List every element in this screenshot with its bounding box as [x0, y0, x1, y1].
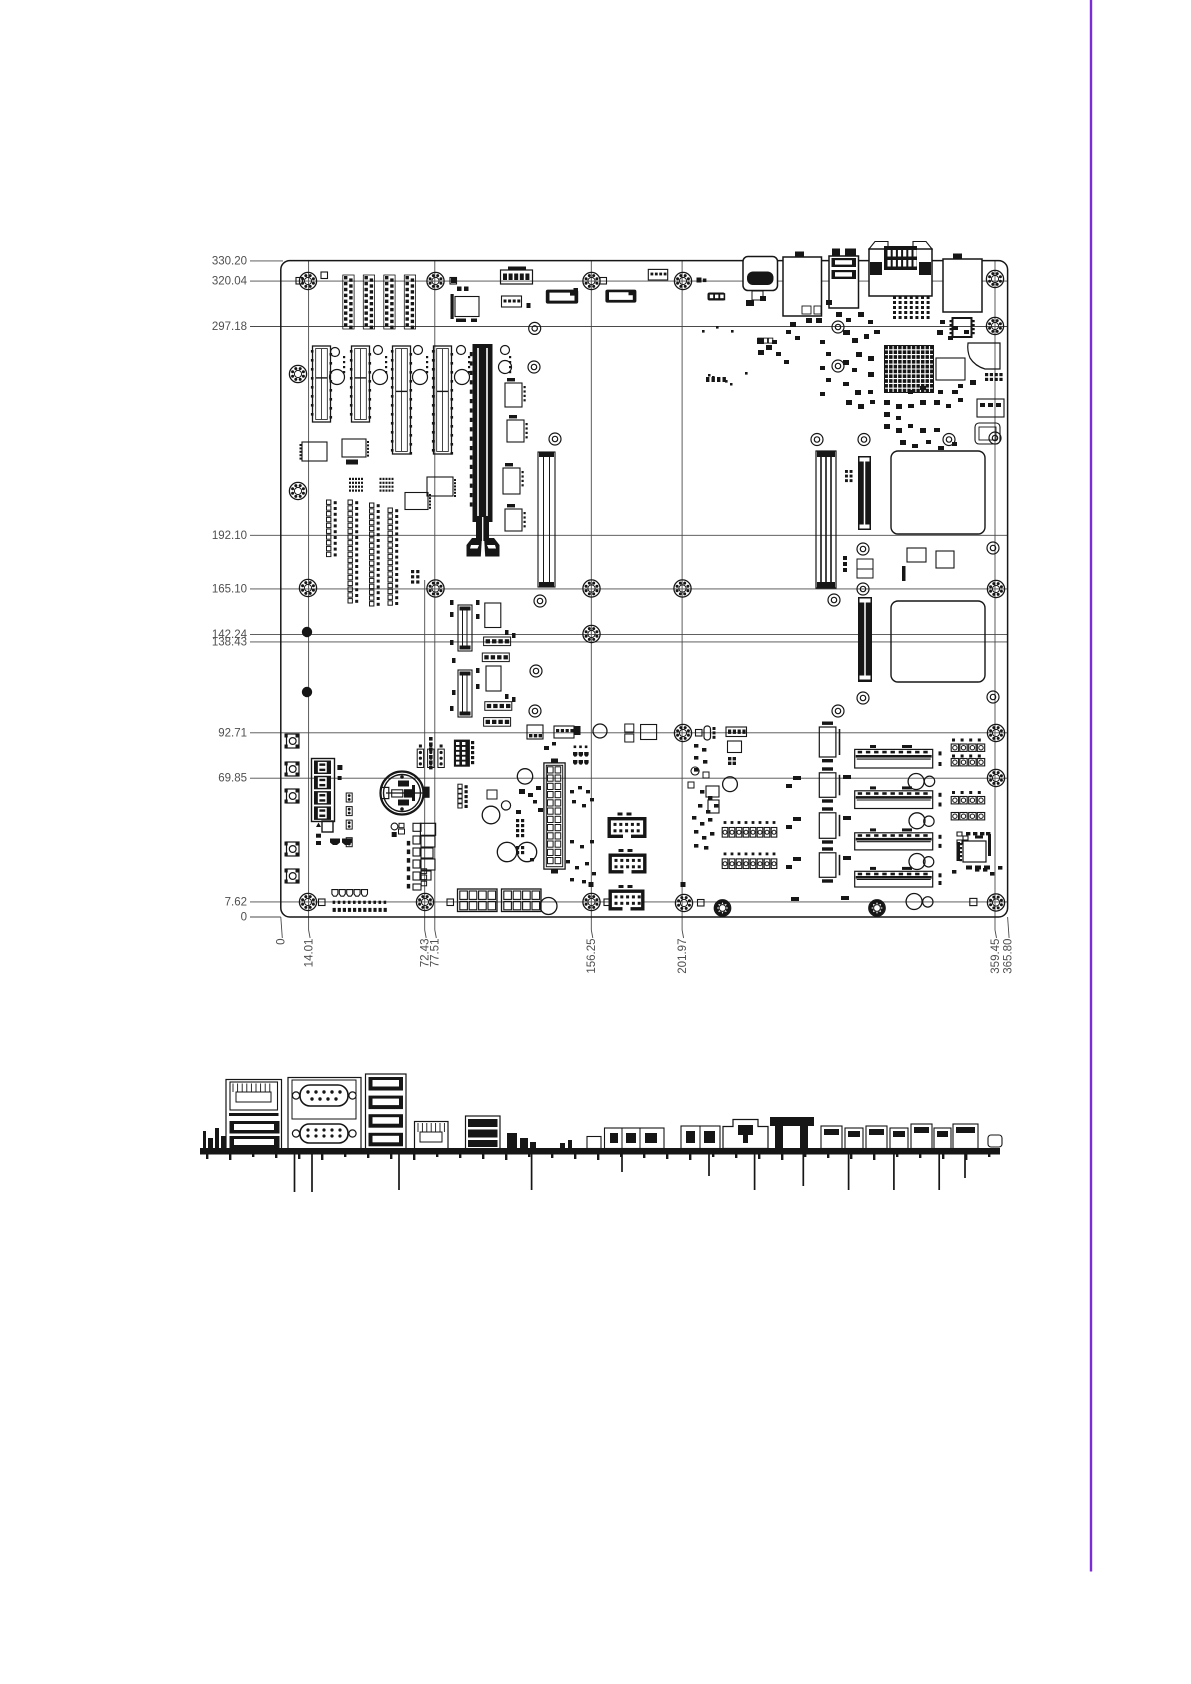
pin header (6-pin): [411, 570, 414, 573]
plated through-hole: [943, 434, 955, 446]
M.2 connector M2_2: [458, 670, 472, 717]
CPU power capacitor: [540, 898, 557, 915]
dimension line 297.18 mm (horizontal): [250, 326, 1008, 328]
svg-text:138.43: 138.43: [212, 636, 247, 648]
7-segment display DS1: [312, 759, 335, 822]
side: quad USB stack: [366, 1074, 407, 1150]
plated through-hole: [529, 322, 541, 334]
silkscreen label: [468, 356, 470, 358]
dimension line 165.10 mm (horizontal): [250, 588, 1008, 590]
pad pair near hole: [697, 278, 702, 283]
dimension line 201.97 mm (vertical): [681, 261, 683, 930]
electrolytic capacitor: [482, 806, 500, 824]
bar below keep-out: [902, 566, 906, 581]
plated through-hole: [987, 542, 999, 554]
capacitor pair B: [909, 813, 925, 829]
pin header CN1 (dual-row vertical): [344, 276, 347, 279]
plated through-hole: [989, 432, 1001, 444]
COM header: [502, 296, 522, 307]
plated through-hole: [832, 321, 844, 333]
mounting hole: [299, 579, 316, 596]
vertical edge connector slot: [538, 452, 555, 587]
IC U15: [907, 548, 926, 562]
plated through-hole: [529, 705, 541, 717]
SATA connector SATA1: [546, 290, 578, 304]
svg-text:156.25: 156.25: [586, 938, 598, 973]
LAN connector box 2: [943, 259, 982, 312]
jumper block column A: [327, 500, 331, 504]
bar right of QFP: [988, 834, 991, 850]
plated through-hole: [528, 361, 540, 373]
output choke module: [819, 853, 836, 878]
3-pin jumper: [428, 749, 434, 767]
tact switch: [287, 789, 300, 803]
dimension line 92.71 mm (horizontal): [250, 732, 1008, 734]
inductor pads: [487, 790, 497, 799]
magnetics cluster: [349, 478, 351, 480]
box header CN: [609, 890, 645, 911]
3-pin jumper: [417, 749, 423, 767]
DC-DC converter IC: [505, 509, 522, 531]
ATX12V 2x4 connector: [458, 889, 498, 912]
ATX12V 2x4 connector: [502, 889, 542, 912]
svg-text:297.18: 297.18: [212, 321, 247, 333]
VGA D-SUB connector: [869, 249, 932, 296]
power header: [648, 269, 667, 280]
tooling hole: [374, 346, 383, 355]
FPC connector: [485, 702, 512, 711]
plated through-hole: [832, 705, 844, 717]
side: dark strip: [770, 1117, 814, 1126]
jumper J4: [708, 293, 726, 301]
power connector slot (horizontal): [855, 749, 933, 768]
svg-text:201.97: 201.97: [677, 939, 689, 974]
output choke module: [819, 813, 836, 839]
SMD block: [728, 757, 731, 760]
chipset heatsink U1: [884, 345, 934, 393]
MOSFET squares: [421, 869, 426, 874]
svg-text:92.71: 92.71: [218, 727, 247, 739]
SMD pair: [337, 765, 342, 770]
jumper CMOS2: [429, 755, 433, 759]
IC U10: [302, 442, 327, 461]
mounting hole (dark): [714, 900, 730, 916]
capacitor: [451, 277, 456, 283]
PCB board outline: [281, 261, 1008, 917]
module keep-out zone 1: [891, 451, 985, 534]
FPC connector: [484, 637, 511, 646]
2-pin jumper: [346, 838, 352, 847]
DC-DC converter IC: [505, 383, 522, 407]
fiducial pad: [450, 278, 457, 285]
USB header row: [516, 819, 519, 822]
side: box group 2: [681, 1126, 720, 1149]
3-pin jumper: [438, 749, 444, 767]
resistor network: [321, 272, 328, 279]
side: T-shaped connector: [723, 1120, 768, 1149]
SMD parts near M.2: [450, 600, 516, 711]
tact switch: [287, 869, 300, 883]
plated through-hole: [549, 433, 561, 445]
silkscreen label: [343, 356, 345, 358]
connector CN13: [527, 725, 543, 739]
mounting hole: [986, 317, 1003, 334]
display tab: [322, 821, 333, 832]
tooling hole: [499, 361, 512, 374]
diode bank row 1: [951, 744, 958, 751]
mounting hole: [416, 893, 433, 910]
side: RJ45 single: [415, 1122, 449, 1150]
DC-DC converter IC: [507, 420, 524, 442]
mounting hole: [427, 272, 444, 289]
M.2 connector M2_1: [458, 605, 472, 651]
FPC connector: [482, 653, 509, 662]
SMD resistor row: [706, 374, 733, 386]
side: DB9 serial over DB15 VGA: [288, 1078, 361, 1150]
side: RJ45 + dual USB tower: [226, 1080, 282, 1150]
side: small components group: [507, 1133, 572, 1148]
svg-text:330.20: 330.20: [212, 255, 247, 267]
locating dot: [302, 687, 312, 697]
dimension line 359.45 mm (vertical): [994, 261, 996, 930]
mounting hole: [289, 365, 306, 382]
resistor column: [407, 841, 410, 889]
dimension line 156.25 mm (vertical): [590, 261, 592, 930]
diode cluster: [391, 823, 398, 830]
cup cluster: [573, 746, 589, 765]
edge retention clip: [968, 343, 1000, 369]
mounting hole: [583, 893, 600, 910]
jumper CMOS1: [429, 737, 433, 741]
IC U2: [936, 358, 965, 380]
fiducial pad: [604, 899, 611, 906]
DIP switch block: [722, 828, 728, 838]
mounting hole: [299, 893, 316, 910]
SIM socket CN9: [977, 399, 1004, 417]
SATA connector SATA2: [605, 290, 636, 303]
svg-text:77.51: 77.51: [430, 939, 442, 968]
fiducial pad: [696, 730, 703, 737]
IC U20: [728, 741, 742, 753]
header pins: [471, 741, 474, 744]
module keep-out zone 2: [891, 601, 985, 682]
dimension line 365.80 mm (vertical): [1008, 917, 1010, 938]
mounting hole: [987, 724, 1004, 741]
side view PCB body: [200, 1149, 1000, 1155]
jumper block column D: [388, 508, 392, 512]
page accent rule: [1090, 0, 1092, 1572]
via dots: [702, 326, 748, 383]
box header CN: [609, 854, 647, 874]
capacitor pair C: [909, 854, 925, 870]
tooling hole: [413, 370, 428, 385]
plated through-hole: [811, 434, 823, 446]
DC-DC converter IC: [503, 468, 520, 494]
mini connector CN10: [975, 423, 1000, 444]
IC U19: [641, 725, 657, 740]
PCIe x16 retention foot: [476, 517, 489, 541]
side: cap right end: [988, 1135, 1002, 1147]
GPIO header (dual row): [458, 784, 462, 788]
relay box: [706, 786, 719, 797]
locating dot: [302, 627, 312, 637]
mounting hole: [674, 724, 691, 741]
svg-text:7.62: 7.62: [225, 896, 247, 908]
passive row: [843, 556, 847, 560]
diode bank row 2: [951, 759, 958, 766]
jumper block column C: [370, 503, 374, 507]
LED pair: [316, 834, 321, 838]
header small: [845, 470, 848, 473]
IC U11: [342, 439, 366, 457]
plated through-hole: [857, 692, 869, 704]
battery clip: [412, 785, 415, 801]
QFP IC U21: [963, 841, 986, 862]
electrolytic capacitor: [723, 777, 738, 792]
side: box group 1: [587, 1137, 601, 1149]
tooling hole: [457, 346, 466, 355]
electrolytic capacitor: [517, 842, 536, 861]
PCIe x4 slot PCIE1: [393, 346, 411, 454]
fiducial pad: [319, 899, 326, 906]
side: audio stack: [466, 1116, 501, 1150]
box header CN: [608, 817, 647, 838]
CPU fan connector FAN1: [501, 270, 533, 284]
PCIe x4 slot PCIE2: [434, 346, 452, 454]
fiducial pad: [447, 899, 454, 906]
plated through-hole: [857, 543, 869, 555]
ATX 24-pin power connector PWR1: [544, 763, 565, 869]
silkscreen label: [385, 356, 387, 358]
pin row 2: [333, 908, 387, 912]
power connector slot (horizontal): [855, 791, 933, 809]
plated through-hole: [534, 595, 546, 607]
mounting hole: [289, 482, 306, 499]
fan connector FAN2: [726, 727, 747, 737]
mounting hole: [675, 894, 692, 911]
side: through-hole legs: [294, 1155, 296, 1193]
svg-text:69.85: 69.85: [218, 773, 247, 785]
dimension line 7.62 mm (horizontal): [250, 901, 1008, 903]
magnetics cluster: [380, 478, 382, 480]
small parts mid-bottom: [566, 786, 596, 883]
stacked passives: [857, 559, 873, 569]
svg-text:165.10: 165.10: [212, 583, 247, 595]
pill component: [970, 898, 977, 905]
tooling hole: [330, 370, 345, 385]
2-pin jumper: [346, 820, 352, 829]
pin header CN3 (dual-row vertical): [385, 276, 388, 279]
tooling hole: [373, 370, 388, 385]
jumper block column B: [348, 500, 352, 504]
mounting hole: [987, 580, 1004, 597]
power connector slot (horizontal): [855, 871, 933, 887]
pin header CN4 (dual-row vertical): [406, 276, 409, 279]
pin row 1: [333, 901, 387, 904]
USB stacked connector: [829, 256, 859, 308]
dimension line 320.04 mm (horizontal): [250, 280, 1008, 282]
jumper J3: [709, 294, 714, 300]
mounting hole: [987, 769, 1004, 786]
side: box row right: [821, 1126, 842, 1149]
buzzer pads: [330, 839, 340, 846]
diode bank row 3: [951, 797, 958, 804]
svg-text:0: 0: [276, 939, 288, 945]
mounting hole (dark): [869, 900, 885, 916]
side: bracket detail left: [203, 1128, 226, 1148]
front panel header (dual row): [454, 740, 470, 767]
IC U16: [936, 551, 954, 568]
svg-text:359.45: 359.45: [990, 939, 1002, 974]
LAN connector box: [783, 257, 822, 316]
dimension line 72.43 mm (vertical): [424, 580, 426, 930]
test point row: [758, 338, 762, 343]
plated through-hole: [987, 691, 999, 703]
mounting hole: [674, 580, 691, 597]
silkscreen label: [509, 356, 511, 358]
IC U12: [405, 493, 428, 510]
plated through-hole: [832, 360, 844, 372]
tact switch: [287, 734, 300, 748]
capacitor: [527, 303, 531, 308]
dimension line 69.85 mm (horizontal): [250, 777, 1008, 779]
capacitor pair A: [908, 774, 924, 790]
dimension line 14.01 mm (vertical): [308, 261, 310, 930]
SMD cluster bl: [692, 744, 718, 850]
electrolytic capacitor: [497, 842, 516, 861]
header comb row: [332, 890, 338, 897]
tooling hole: [455, 370, 470, 385]
VRM ladder: [413, 823, 421, 831]
svg-text:365.80: 365.80: [1002, 939, 1014, 974]
PCI slot PCI2: [352, 346, 370, 422]
IC U13: [427, 477, 453, 496]
battery holder BT1: [381, 772, 424, 815]
output choke module: [819, 727, 836, 757]
dimension line 0 mm (vertical): [281, 917, 283, 938]
tooling hole: [331, 348, 340, 357]
svg-text:14.01: 14.01: [303, 939, 315, 968]
polyfuse: [704, 726, 711, 740]
dimension line 77.51 mm (vertical): [434, 261, 436, 930]
mounting hole: [674, 272, 691, 289]
QFP IC U3: [953, 318, 972, 337]
plated through-hole: [828, 594, 840, 606]
power connector slot (horizontal): [855, 833, 933, 850]
svg-text:0: 0: [241, 912, 247, 924]
mounting hole: [583, 580, 600, 597]
svg-text:192.10: 192.10: [212, 530, 247, 542]
fiducial pad: [698, 900, 705, 907]
small parts right: [952, 866, 1002, 876]
dimension line 192.10 mm (horizontal): [250, 534, 1008, 536]
line tick squares: [589, 882, 594, 887]
FPC connector: [484, 718, 511, 727]
tact switch: [287, 842, 300, 856]
DC power jack: [743, 257, 778, 291]
SMD component field (chipset area): [746, 296, 976, 450]
connector CN14: [554, 726, 574, 738]
SMD row above QFP: [966, 832, 990, 870]
dimension line 138.43 mm (horizontal): [250, 641, 1008, 643]
capacitor pair D: [906, 894, 922, 910]
jumper cross: [957, 832, 968, 844]
diode bank row 4: [951, 813, 958, 820]
mounting hole: [987, 894, 1004, 911]
PCIe x16 slot PCIE3: [473, 344, 493, 522]
silkscreen label: [426, 356, 428, 358]
solder jumper cluster: [691, 767, 699, 775]
capacitor small: [501, 801, 510, 810]
IC U18: [486, 666, 501, 691]
mounting hole: [583, 272, 600, 289]
mounting hole: [583, 625, 600, 642]
inductor bar: [957, 842, 961, 861]
fiducial pad: [600, 278, 607, 285]
SODIMM socket DIMM1: [816, 451, 836, 588]
pin header 2x4: [985, 373, 988, 376]
buzzer BZ1: [593, 724, 607, 738]
pin header CN2 (dual-row vertical): [365, 276, 368, 279]
IC U5 (Super I/O): [455, 297, 479, 317]
dimension line 330.20 mm (horizontal): [250, 260, 283, 262]
tact switch: [287, 762, 300, 776]
board-to-board connector CN11: [858, 456, 871, 530]
mounting hole: [986, 270, 1003, 287]
output choke module: [819, 773, 836, 798]
plated through-hole: [858, 434, 870, 446]
plated through-hole: [857, 583, 869, 595]
fiducial pad: [296, 278, 303, 285]
IC U17: [485, 603, 501, 628]
side: under-board stubs: [206, 1155, 990, 1161]
svg-text:320.04: 320.04: [212, 276, 248, 288]
tooling hole: [501, 346, 510, 355]
board-to-board connector CN12: [858, 597, 872, 682]
BGA dot matrix: [893, 296, 930, 319]
plated through-hole: [530, 665, 542, 677]
SMD pair: [625, 724, 634, 732]
mounting hole: [299, 272, 316, 289]
2-pin jumper: [346, 807, 352, 816]
dimension line 0 mm (horizontal): [250, 916, 281, 918]
PCI slot PCI1: [313, 346, 331, 422]
electrolytic capacitor: [517, 769, 532, 784]
mounting hole: [427, 580, 444, 597]
capacitor bank: [346, 460, 358, 465]
2-pin jumper: [346, 793, 352, 802]
tooling hole: [414, 346, 423, 355]
dimension line 142.24 mm (horizontal): [250, 633, 1008, 635]
USB header row 2: [516, 846, 519, 849]
VRM inductor L1: [420, 823, 435, 835]
DIP switch block: [722, 859, 728, 869]
